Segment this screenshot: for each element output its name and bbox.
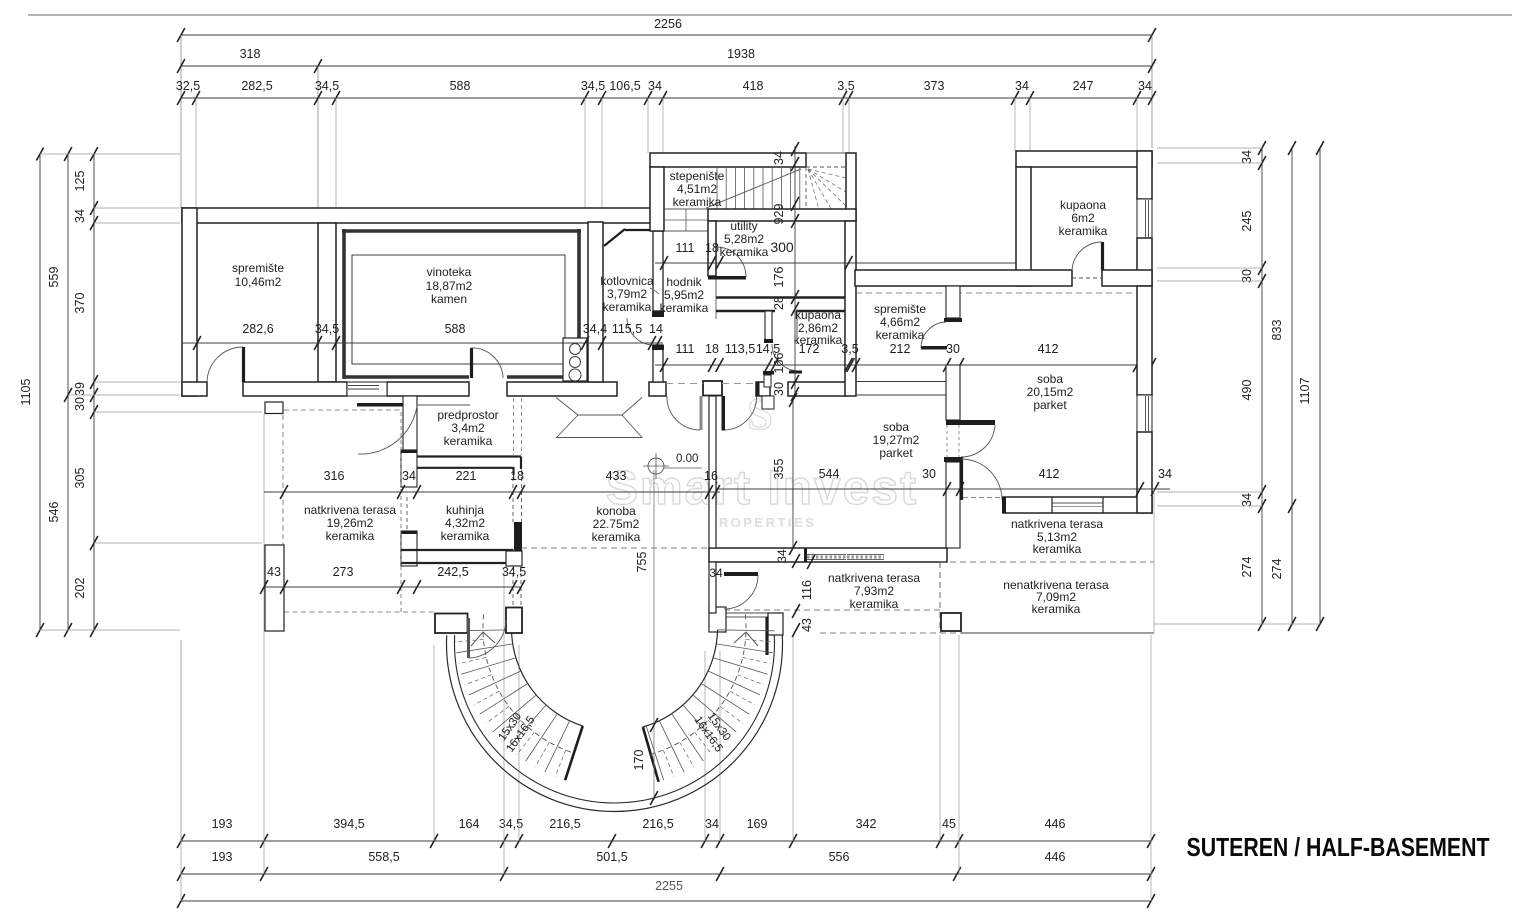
svg-text:169: 169 [747,817,768,831]
svg-text:115,5: 115,5 [612,322,642,336]
left building left wall [182,208,197,396]
svg-text:22.75m2: 22.75m2 [593,517,640,531]
top dim row 1: 2256 [181,34,1152,36]
svg-text:natkrivena terasa: natkrivena terasa [1011,517,1103,531]
walk line left [483,614,574,753]
svg-text:3,5: 3,5 [841,342,858,356]
svg-text:394,5: 394,5 [333,817,364,831]
svg-text:keramika: keramika [1032,602,1081,616]
stair entry door arc left [469,620,506,658]
svg-text:parket: parket [1033,398,1067,412]
svg-text:kupaona: kupaona [1060,198,1106,212]
stair void dashed [806,152,846,154]
svg-text:446: 446 [1045,817,1066,831]
vinoteka door [470,348,473,378]
svg-text:111: 111 [675,342,694,356]
stair stringer arc r160 [455,635,775,803]
svg-text:176: 176 [772,267,786,288]
svg-text:1105: 1105 [19,379,33,406]
dim row y489: 544/30/412/34 [709,488,1170,490]
left dim chain mid 559/546 [67,154,69,630]
svg-text:4,32m2: 4,32m2 [445,516,485,530]
svg-text:316: 316 [324,469,345,483]
svg-text:28: 28 [772,296,786,310]
svg-text:34: 34 [709,566,723,580]
svg-text:111: 111 [675,241,694,255]
svg-text:kupaona: kupaona [795,308,841,322]
level marker 0.00 [648,458,664,474]
stair outer arc r168 [447,635,783,811]
svg-text:34: 34 [705,817,719,831]
wall band right of vinoteka [588,222,603,382]
right dim extension lines [1157,147,1262,149]
kuhinja top wall double lines [417,455,521,457]
svg-text:konoba: konoba [596,504,636,518]
svg-text:kuhinja: kuhinja [446,503,484,517]
kuhinja top-left pier [401,450,417,487]
svg-text:34: 34 [1138,79,1152,93]
svg-text:3,79m2: 3,79m2 [607,287,647,301]
bottom dim row C: 2255 [181,900,1151,902]
kupaona6 top wall [1016,151,1152,167]
svg-text:433: 433 [606,469,627,483]
dim row y492: 316/34/221/18/433/16 [264,491,720,493]
kuhinja bottom-left pier [401,531,417,566]
bottom extension lines [180,640,182,841]
partition x946 mid [946,365,960,420]
stair inner arc left [512,630,583,726]
svg-text:34: 34 [775,549,789,563]
svg-text:34: 34 [1240,150,1254,164]
svg-text:318: 318 [240,47,261,61]
svg-text:34,4: 34,4 [583,322,607,336]
konoba top door [722,396,726,431]
svg-text:34: 34 [1158,467,1172,481]
svg-text:keramika: keramika [673,195,722,209]
landing strip right [726,612,768,614]
svg-text:kotlovnica: kotlovnica [600,274,654,288]
svg-text:18,87m2: 18,87m2 [426,279,473,293]
right dim chain A [1261,148,1263,624]
stair top-left pillar 2 [506,608,522,634]
svg-text:keramika: keramika [850,597,899,611]
svg-text:3,4m2: 3,4m2 [451,421,485,435]
svg-text:16: 16 [704,469,718,483]
stair top-left pillar [435,614,468,634]
svg-text:370: 370 [73,293,87,314]
kuhinja right dashed door [512,470,514,522]
right dim chain B 833/274 [1291,148,1293,624]
soba20 bottom wall with window [1003,497,1152,513]
svg-text:172: 172 [799,342,820,356]
kuhinja bottom wall [401,549,514,551]
svg-text:34: 34 [73,209,87,223]
svg-text:34: 34 [1015,79,1029,93]
stair end chord left [565,726,583,780]
svg-text:559: 559 [47,267,61,288]
svg-text:2256: 2256 [654,17,682,31]
svg-text:43: 43 [800,618,814,632]
kotlovnica-hodnik wall lower [653,345,663,382]
svg-text:558,5: 558,5 [368,850,399,864]
svg-text:216,5: 216,5 [642,817,673,831]
kotlovnica-hodnik wall upper [653,231,663,311]
svg-text:34: 34 [402,469,416,483]
kupaona 2,86 partition + door [765,311,772,341]
svg-text:keramika: keramika [720,245,769,259]
svg-text:18: 18 [705,342,719,356]
door jamb pier between hodnik and konoba doors [703,381,722,396]
svg-text:soba: soba [1037,372,1063,386]
svg-text:274: 274 [1270,559,1284,580]
svg-text:PROPERTIES: PROPERTIES [708,515,817,530]
right dim chain C 1107 [1319,148,1321,624]
svg-text:natkrivena terasa: natkrivena terasa [828,571,920,585]
kupaona6 right wall upper [1137,151,1152,199]
dashed line below top wall [856,292,1150,294]
svg-text:14: 14 [649,322,663,336]
svg-text:keramika: keramika [603,300,652,314]
svg-text:170: 170 [632,750,646,771]
dim 170 [653,470,655,800]
svg-text:soba: soba [883,420,909,434]
svg-text:245: 245 [1240,211,1254,232]
svg-text:446: 446 [1045,850,1066,864]
svg-text:keramika: keramika [441,529,490,543]
svg-text:30: 30 [922,467,936,481]
door soba19 to terasa [724,572,758,576]
kitchen block [563,338,587,381]
svg-text:keramika: keramika [876,328,925,342]
soba19-soba20 door [946,420,995,425]
stair labels right [691,707,735,755]
svg-text:4,51m2: 4,51m2 [677,182,717,196]
svg-text:natkrivena terasa: natkrivena terasa [304,503,396,517]
svg-text:hodnik: hodnik [666,275,702,289]
svg-text:412: 412 [1039,467,1060,481]
konoba right wall [709,396,716,548]
svg-text:418: 418 [743,79,764,93]
utility door [708,276,746,280]
stair treads right [718,630,775,631]
stair entry door leaf left [467,618,470,658]
svg-text:keramika: keramika [1059,224,1108,238]
svg-text:490: 490 [1240,380,1254,401]
svg-text:212: 212 [890,342,911,356]
nenatkrivena terasa boundary [940,561,1154,563]
svg-text:keramika: keramika [326,529,375,543]
svg-text:30: 30 [73,397,87,411]
column at stair right [941,613,961,631]
svg-text:305: 305 [73,468,87,489]
svg-text:vinoteka: vinoteka [427,265,472,279]
svg-text:0.00: 0.00 [676,453,698,465]
dashes across door openings [666,383,703,385]
svg-text:929: 929 [772,204,786,225]
svg-text:113,5: 113,5 [725,342,755,356]
svg-text:588: 588 [450,79,471,93]
stepeniste right band wall [846,153,856,221]
v dim 116/43 x807 [806,561,808,633]
terasa 7,93 dashed [724,609,940,611]
kupaona6 door [1101,242,1104,270]
svg-text:588: 588 [445,322,466,336]
bottom wall segments y382-396 [182,382,207,396]
terrace pillar top-left [265,402,283,414]
wall below stair [708,209,856,221]
svg-text:stepenište: stepenište [670,169,725,183]
spremiste466 door [921,346,947,350]
dim h row y365 [655,364,1152,366]
svg-text:kamen: kamen [431,292,467,306]
svg-text:833: 833 [1270,320,1284,341]
konoba dashed boundaries [521,547,709,549]
svg-text:18: 18 [510,469,524,483]
svg-text:45: 45 [942,817,956,831]
svg-text:34,5: 34,5 [581,79,605,93]
kuhinja bottom-right pier [506,551,522,566]
svg-text:18: 18 [705,241,719,255]
svg-text:30: 30 [772,382,786,396]
dim row y587: 43/273/242,5/34,5 [264,586,521,588]
v dim 355 [792,396,794,548]
svg-text:keramika: keramika [592,530,641,544]
svg-text:7,93m2: 7,93m2 [854,584,894,598]
svg-text:32,5: 32,5 [176,79,200,93]
soba20 right wall [1137,286,1152,395]
svg-text:spremište: spremište [874,302,926,316]
terrace pillar left [265,545,284,631]
spremiste door [242,347,245,382]
svg-text:221: 221 [456,469,477,483]
stair dashed radials left [455,640,483,642]
svg-text:5,28m2: 5,28m2 [724,232,764,246]
svg-text:14,5: 14,5 [756,342,780,356]
svg-text:1938: 1938 [727,47,755,61]
stair diagonal [706,169,801,208]
svg-text:193: 193 [212,817,233,831]
bottom dim row B [181,873,1151,875]
svg-text:34,5: 34,5 [315,322,339,336]
top dim row 2: 318 / 1938 [181,65,1152,67]
stepeniste top wall [650,153,806,167]
hodnik door at bottom wall [700,396,703,430]
fireplace hood below wall [556,398,642,416]
svg-text:501,5: 501,5 [596,850,627,864]
dim v chain x795 [794,146,796,396]
svg-text:20,15m2: 20,15m2 [1027,385,1074,399]
kotlovnica door [652,311,664,317]
svg-text:keramika: keramika [1033,542,1082,556]
svg-text:keramika: keramika [660,301,709,315]
top dim row 3 [181,97,1152,99]
svg-text:predprostor: predprostor [437,408,498,422]
svg-text:30: 30 [946,342,960,356]
svg-text:373: 373 [924,79,945,93]
stair turn treads [664,208,708,210]
svg-text:274: 274 [1240,557,1254,578]
svg-text:755: 755 [635,552,649,573]
svg-text:164: 164 [459,817,480,831]
svg-text:116: 116 [800,580,814,600]
svg-text:Smart Invest: Smart Invest [606,462,918,515]
svg-text:556: 556 [829,850,850,864]
svg-text:546: 546 [47,502,61,523]
right band wall center [845,221,856,396]
vinoteka inner rect [352,255,565,364]
kupaona6 left wall [1016,167,1031,286]
svg-text:34,5: 34,5 [315,79,339,93]
kupaona step below [762,396,774,409]
svg-text:parket: parket [879,446,913,460]
dim h row y263: 111/18/300 [655,262,1016,264]
kupaona6 right wall lower [1137,238,1152,286]
terrace 19,26 dashed boundaries [284,409,401,411]
stair treads vertical [716,167,718,209]
stair inner arc right [643,630,718,727]
left dim extension lines [40,153,180,155]
svg-text:keramika: keramika [444,434,493,448]
vinoteka stone walls [342,229,581,233]
soba20 terrace door [960,459,963,500]
left dim chain outer 1105 [39,154,41,630]
svg-text:216,5: 216,5 [549,817,580,831]
walk line right [651,614,746,754]
utility left wall [708,221,716,276]
svg-text:34,5: 34,5 [499,817,523,831]
svg-text:19,26m2: 19,26m2 [327,516,374,530]
kupaona6 window right [1137,199,1152,238]
stair dashed radials right [746,640,774,642]
svg-text:4,66m2: 4,66m2 [880,315,920,329]
svg-text:19,27m2: 19,27m2 [873,433,920,447]
svg-text:1107: 1107 [1298,378,1312,405]
right building top wall band [855,270,1072,286]
svg-text:5,95m2: 5,95m2 [664,288,704,302]
svg-text:6m2: 6m2 [1071,211,1095,225]
soba19 top thin lines [856,381,947,383]
bottom dim row A [181,840,1151,842]
svg-text:3,5: 3,5 [837,79,854,93]
entry door + threshold [357,403,403,407]
svg-text:2255: 2255 [655,879,683,893]
svg-text:247: 247 [1073,79,1094,93]
svg-text:300: 300 [770,239,794,255]
svg-text:282,6: 282,6 [242,322,273,336]
svg-text:SUTEREN / HALF-BASEMENT: SUTEREN / HALF-BASEMENT [1187,832,1490,862]
dim row y343 282,6/34,5/588/34,4/115,5/14 [182,342,663,344]
konoba wall stub below [709,562,716,613]
svg-text:544: 544 [819,467,840,481]
svg-text:202: 202 [73,578,87,599]
svg-text:125: 125 [73,171,87,192]
stair end chord right [643,727,659,782]
window in bottom wall 347-379 [347,382,387,396]
svg-text:342: 342 [856,817,877,831]
page top scan line [28,14,1512,16]
spremiste466 partition upper [946,286,960,318]
kotlovnica chamfer + top [604,229,625,246]
svg-text:273: 273 [333,565,354,579]
left dim chain inner [93,154,95,630]
svg-text:spremište: spremište [232,261,284,275]
utility bottom wall [716,296,846,298]
svg-text:34: 34 [1240,493,1254,507]
svg-text:242,5: 242,5 [437,565,468,579]
svg-text:34,5: 34,5 [502,565,526,579]
kuhinja left dashed opening [406,497,408,531]
svg-text:34: 34 [648,79,662,93]
partition spremiste/vinoteka [318,223,336,382]
stepeniste left wall [650,167,664,231]
svg-text:355: 355 [772,459,786,480]
svg-text:39: 39 [73,382,87,396]
svg-text:106,5: 106,5 [609,79,640,93]
stair treads left [455,630,512,631]
stair labels left [494,707,538,755]
kotlovnica label leader [650,288,659,294]
svg-text:282,5: 282,5 [241,79,272,93]
left building top wall [182,208,657,223]
svg-text:10,46m2: 10,46m2 [235,275,282,289]
svg-text:412: 412 [1038,342,1059,356]
svg-text:193: 193 [212,850,233,864]
svg-text:utility: utility [730,219,757,233]
svg-text:34: 34 [772,151,786,165]
walk arrows [471,632,495,646]
partition cap + lower [944,457,963,462]
svg-text:43: 43 [267,565,281,579]
soba19 bottom wall with windows [709,548,947,562]
